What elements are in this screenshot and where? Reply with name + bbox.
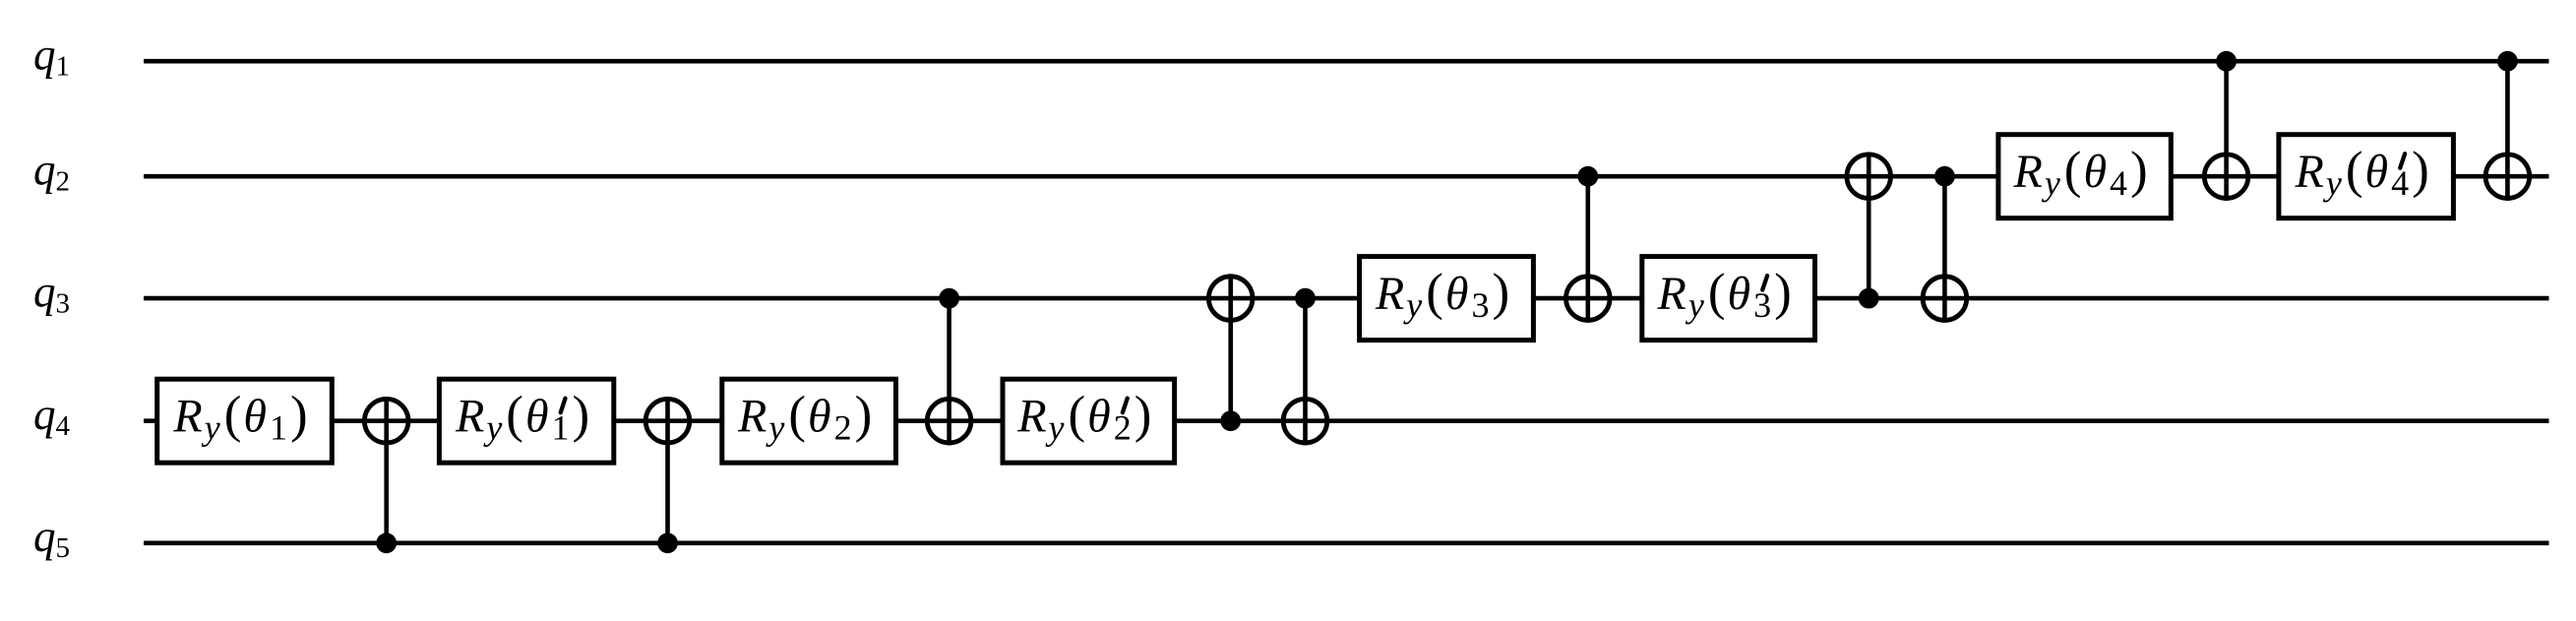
svg-text:q3: q3 — [33, 267, 70, 319]
CNOT 2 target circle on q4 — [645, 399, 690, 443]
CNOT 10 vertical wire q1-q2 — [2505, 61, 2510, 201]
CNOT 3 target circle on q4 — [927, 399, 971, 443]
CNOT 9 target circle on q2 — [2204, 155, 2248, 199]
CNOT 8 target circle on q3 — [1923, 277, 1967, 321]
wire q5 — [144, 540, 2549, 545]
CNOT 8 control dot on q2 — [1934, 166, 1955, 187]
CNOT 2 control dot on q5 — [657, 532, 678, 553]
CNOT 2 vertical wire q5-q4 — [665, 397, 670, 543]
gate R_y(theta_4) on q2 — [1998, 135, 2171, 218]
CNOT 4 vertical wire q4-q3 — [1228, 274, 1233, 420]
CNOT 5 vertical wire q3-q4 — [1303, 298, 1308, 445]
CNOT 3 control dot on q3 — [939, 288, 959, 309]
svg-text:q4: q4 — [33, 390, 71, 442]
CNOT 4 target circle on q3 — [1208, 277, 1253, 321]
CNOT 4 control dot on q4 — [1220, 410, 1241, 431]
CNOT 10 target circle on q2 — [2485, 155, 2530, 199]
CNOT 7 vertical wire q3-q2 — [1867, 153, 1871, 299]
CNOT 7 control dot on q3 — [1859, 288, 1879, 309]
CNOT 7 target circle on q2 — [1847, 155, 1891, 199]
CNOT 10 control dot on q1 — [2497, 51, 2518, 72]
svg-text:q1: q1 — [33, 31, 70, 83]
CNOT 9 vertical wire q1-q2 — [2224, 61, 2229, 201]
gate R_y(theta'_4) on q2 — [2279, 135, 2454, 218]
CNOT 3 vertical wire q3-q4 — [947, 298, 951, 445]
gate R_y(theta_1) on q4 — [157, 379, 333, 463]
wire q4 — [144, 418, 2549, 423]
CNOT 1 target circle on q4 — [364, 399, 408, 443]
CNOT 1 vertical wire q5-q4 — [384, 397, 389, 543]
wire q2 — [144, 174, 2549, 179]
CNOT 6 control dot on q2 — [1577, 166, 1598, 187]
gate R_y(theta'_1) on q4 — [439, 379, 613, 463]
svg-text:q5: q5 — [33, 512, 70, 564]
gate R_y(theta'_2) on q4 — [1003, 379, 1175, 463]
CNOT 5 target circle on q4 — [1283, 399, 1327, 443]
CNOT 5 control dot on q3 — [1295, 288, 1316, 309]
CNOT 9 control dot on q1 — [2216, 51, 2237, 72]
CNOT 6 target circle on q3 — [1566, 277, 1611, 321]
CNOT 6 vertical wire q2-q3 — [1586, 176, 1591, 323]
svg-text:q2: q2 — [33, 146, 70, 198]
CNOT 1 control dot on q5 — [376, 532, 397, 553]
gate R_y(theta_2) on q4 — [722, 379, 896, 463]
wire q3 — [144, 296, 2549, 301]
gate R_y(theta'_3) on q3 — [1642, 257, 1815, 341]
wire q1 — [144, 59, 2549, 64]
CNOT 8 vertical wire q2-q3 — [1942, 176, 1947, 323]
gate R_y(theta_3) on q3 — [1360, 257, 1534, 341]
